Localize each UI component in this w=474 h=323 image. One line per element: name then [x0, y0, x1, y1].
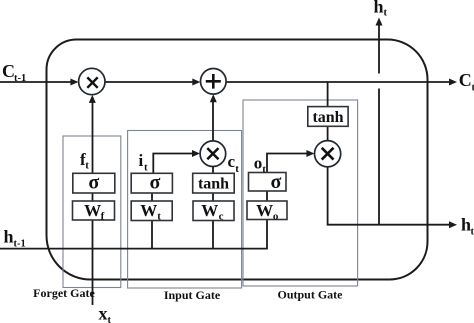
svg-text:o: o: [254, 153, 262, 172]
multiply node (input, c_t): [200, 141, 226, 167]
svg-text:σ: σ: [150, 172, 161, 194]
svg-text:W: W: [201, 201, 218, 220]
svg-text:t: t: [384, 8, 388, 19]
wire: sigma column (input gate): [151, 193, 153, 201]
svg-text:f: f: [101, 211, 105, 223]
wire: cell state line from C_t-1 into multiply: [0, 81, 76, 83]
wire: cell line branch down into output tanh: [327, 82, 329, 107]
svg-text:t: t: [108, 315, 112, 323]
wire: output sigma column up and elbow into multiply: [267, 154, 312, 202]
svg-text:t: t: [235, 163, 239, 175]
svg-text:t-1: t-1: [14, 239, 26, 250]
input gate box: [128, 131, 242, 289]
svg-text:t: t: [144, 162, 148, 174]
tanh box (output): [308, 107, 348, 127]
W_c box: [193, 201, 234, 221]
wire: multiply to plus: [105, 81, 198, 83]
svg-text:t: t: [85, 160, 89, 172]
output gate box: [243, 100, 358, 286]
svg-text:W: W: [84, 201, 101, 220]
W_o box: [247, 201, 287, 220]
sigma box (input): [131, 173, 172, 193]
svg-text:Output Gate: Output Gate: [277, 288, 343, 302]
svg-text:tanh: tanh: [198, 175, 229, 192]
wire: h_t riser to top arrow (hops over cell line): [378, 89, 380, 225]
svg-text:h: h: [461, 215, 471, 235]
sigma box (forget): [73, 173, 115, 193]
svg-text:C: C: [459, 70, 472, 90]
svg-text:i: i: [139, 151, 144, 170]
sigma box (output): [249, 173, 287, 192]
svg-text:c: c: [219, 211, 224, 223]
svg-text:h: h: [374, 0, 384, 17]
plus node: [201, 69, 227, 95]
svg-text:σ: σ: [271, 171, 282, 193]
svg-text:c: c: [228, 152, 236, 171]
svg-text:t-1: t-1: [14, 73, 26, 84]
svg-text:x: x: [99, 304, 108, 323]
wire: input-gate multiply up to plus: [212, 96, 214, 140]
svg-text:Input Gate: Input Gate: [164, 288, 221, 302]
svg-text:W: W: [256, 201, 273, 220]
wire: output multiply down and right to h_t arrow: [328, 167, 454, 225]
svg-text:W: W: [140, 201, 157, 220]
multiply node (output): [315, 141, 341, 167]
wire: h_t-1 input line: [0, 219, 267, 248]
svg-text:t: t: [471, 227, 474, 238]
wire: tanh column (input gate): [212, 166, 214, 173]
svg-text:h: h: [4, 227, 14, 247]
wire: x_t input rising through forget gate: [92, 97, 94, 305]
svg-text:t: t: [262, 163, 266, 175]
W_f box: [73, 201, 115, 220]
wire: plus to C_t output arrow: [226, 81, 454, 83]
forget gate box: [63, 136, 121, 288]
tanh box (input): [193, 173, 235, 193]
svg-text:t: t: [157, 211, 161, 223]
svg-text:σ: σ: [88, 172, 99, 194]
LSTM cell body (rounded rectangle): [47, 40, 428, 280]
wire: i_t elbow into multiply: [153, 154, 198, 174]
svg-text:o: o: [273, 211, 279, 223]
multiply node (forget): [79, 68, 105, 94]
svg-text:tanh: tanh: [312, 109, 343, 126]
W_t box: [131, 201, 172, 221]
svg-text:Forget Gate: Forget Gate: [33, 286, 95, 300]
